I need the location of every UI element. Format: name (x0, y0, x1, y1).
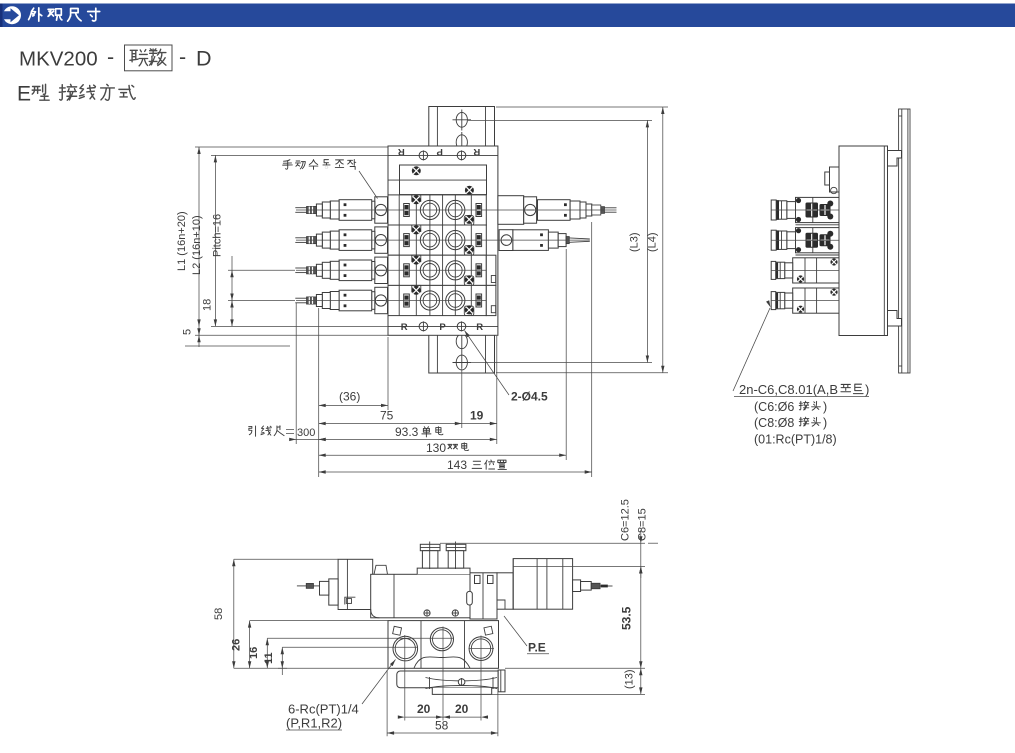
dim lead length 300 (290, 438, 322, 440)
svg-text:R: R (401, 322, 408, 333)
row centerline 3 (296, 269, 486, 271)
corner squares (393, 626, 402, 635)
svg-text:(L4): (L4) (647, 232, 659, 252)
svg-text:C8=15: C8=15 (637, 508, 649, 541)
dim L1 (195, 147, 388, 347)
svg-text:18: 18 (202, 299, 214, 311)
solenoid left row3 (295, 257, 387, 283)
valve station 4 (388, 285, 486, 315)
main valve body (bottom view) (371, 574, 470, 618)
svg-text:): ) (865, 382, 869, 397)
top fitting B (446, 542, 466, 570)
sub-base (bottom view) (388, 621, 499, 669)
valve station 3 (388, 255, 486, 285)
svg-text:53.5: 53.5 (620, 606, 634, 630)
solenoid left row4 (295, 287, 387, 313)
end cover screw 2 (465, 186, 474, 195)
svg-text:MKV200: MKV200 (19, 48, 98, 71)
dim 143 三位置 (319, 471, 592, 473)
svg-text:2n-C6,C8.01(A,B: 2n-C6,C8.01(A,B (739, 382, 838, 397)
svg-text:R: R (398, 146, 405, 157)
header icon (3, 6, 21, 24)
top port labels R P R (rotated 180) (388, 150, 498, 160)
svg-text:20: 20 (417, 702, 431, 716)
svg-text:130: 130 (426, 441, 446, 455)
DIN rail clamp (397, 671, 503, 688)
svg-text:): ) (823, 400, 827, 414)
left solenoid (bottom view) (338, 559, 373, 609)
bottom port labels R P R (388, 321, 498, 331)
manifold outline (388, 146, 498, 335)
dim 93.3 单电 (319, 438, 497, 440)
dim 19 (462, 423, 497, 425)
svg-text:75: 75 (380, 409, 394, 423)
svg-text:P: P (439, 322, 446, 333)
dim (L3) (468, 120, 652, 362)
right solenoid (bottom view) (497, 573, 513, 609)
svg-text:58: 58 (213, 608, 225, 620)
dim L2 (211, 155, 388, 326)
dim 130 双电 (319, 454, 567, 456)
svg-text:L1 (16n+20): L1 (16n+20) (176, 211, 188, 271)
svg-text:143: 143 (447, 458, 467, 472)
dim Pitch=16 (228, 256, 295, 301)
end cover plate (400, 165, 487, 195)
right connector plug (573, 580, 581, 592)
svg-text:E: E (17, 83, 31, 106)
svg-text:11: 11 (263, 652, 275, 664)
FRONT VIEW (176, 107, 668, 478)
svg-text:2-Ø4.5: 2-Ø4.5 (511, 390, 548, 404)
clip bottom (888, 311, 902, 327)
SIDE VIEW (733, 109, 910, 447)
svg-text:(01:Rc(PT)1/8): (01:Rc(PT)1/8) (754, 433, 837, 447)
svg-text:C6=12.5: C6=12.5 (620, 499, 632, 541)
svg-text:P.E: P.E (528, 641, 546, 655)
dim C6=12.5 / C8=15 (440, 530, 645, 578)
svg-text:-: - (179, 45, 186, 69)
svg-text:58: 58 (435, 719, 449, 733)
dim 53.5 (640, 567, 642, 669)
svg-text:(L3): (L3) (629, 232, 641, 252)
side fitting row2 (771, 228, 839, 255)
row centerline 2 (296, 239, 590, 241)
manual override label 手动수동조작 (283, 159, 356, 169)
extension verticals bottom (296, 222, 592, 477)
right middle blocks (470, 573, 497, 619)
svg-text:P: P (436, 146, 443, 157)
svg-text:16: 16 (248, 647, 260, 659)
solenoid right row2 (499, 230, 590, 251)
left connector plug (329, 579, 338, 605)
dim 26 (250, 621, 389, 669)
header title 外观尺寸 (29, 8, 100, 21)
svg-text:-: - (107, 45, 114, 69)
valve station 1 (388, 195, 486, 225)
svg-text:5: 5 (182, 329, 194, 335)
plate hole top 2 (456, 132, 467, 153)
dim (13) (492, 668, 645, 694)
dim 58 bottom (387, 670, 498, 736)
svg-text:(13): (13) (624, 669, 636, 689)
dim (36) (319, 404, 388, 406)
DIN rail side profile (899, 109, 910, 373)
plate hole bottom 2 (453, 355, 472, 370)
svg-text:D: D (196, 47, 212, 71)
solenoid left row1 (295, 197, 387, 223)
side fitting row1 (771, 197, 839, 224)
rail cross-section stub (498, 670, 505, 692)
solenoid right row1 (498, 196, 617, 225)
row centerline 4 (296, 300, 486, 302)
leader to port label (733, 308, 770, 391)
dim 20 20 (405, 627, 481, 721)
top pilot part (830, 167, 840, 192)
svg-text:93.3: 93.3 (395, 425, 419, 439)
svg-text:): ) (823, 416, 827, 430)
svg-text:(C6:Ø6: (C6:Ø6 (754, 400, 794, 414)
svg-text:L2 (16n+10): L2 (16n+10) (191, 215, 203, 275)
solenoid left row2 (295, 227, 387, 253)
svg-text:20: 20 (455, 702, 469, 716)
end cover screw 1 (412, 166, 421, 175)
side fitting row4 (771, 288, 839, 313)
valve station 2 (388, 225, 486, 255)
dim 58 left (234, 559, 388, 668)
dim 75 (319, 423, 462, 425)
header bar (0, 4, 1015, 28)
side body (839, 146, 888, 336)
dim 16 (267, 638, 454, 668)
leader to override (359, 171, 378, 199)
pilot step (374, 565, 388, 574)
svg-text:(P,R1,R2): (P,R1,R2) (286, 716, 342, 731)
plate hole bottom 1 (456, 331, 467, 368)
svg-text:(C8:Ø8: (C8:Ø8 (754, 416, 794, 430)
dim 11 (282, 647, 418, 675)
body screws (424, 610, 431, 617)
dim 18 (195, 301, 388, 336)
port circle left (393, 636, 418, 661)
row centerline 1 (296, 209, 617, 211)
svg-text:(36): (36) (339, 390, 360, 404)
box 联数 (125, 45, 173, 71)
port circle right (469, 637, 493, 661)
port circle middle (430, 628, 453, 651)
BOTTOM VIEW (213, 499, 658, 736)
svg-text:R: R (473, 146, 480, 157)
top fitting A (420, 542, 440, 570)
scallop contour (414, 657, 470, 668)
mounting back plate (429, 107, 495, 374)
svg-text:Pitch=16: Pitch=16 (212, 214, 224, 257)
svg-text:6-Rc(PT)1/4: 6-Rc(PT)1/4 (288, 702, 359, 717)
svg-text:R: R (476, 322, 483, 333)
dim 5 (185, 345, 290, 347)
plate hole top 1 (453, 110, 472, 131)
svg-text:26: 26 (231, 639, 243, 651)
clip top (888, 151, 902, 167)
dim (L4) (496, 107, 668, 373)
svg-text:19: 19 (470, 409, 484, 423)
side fitting row3 (771, 258, 839, 283)
svg-text:300: 300 (297, 427, 315, 439)
